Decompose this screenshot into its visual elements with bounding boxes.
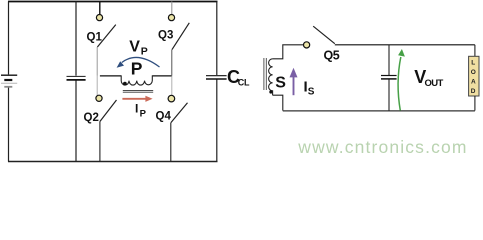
svg-text:A: A [471,79,476,86]
svg-text:CL: CL [238,78,250,88]
svg-text:Q4: Q4 [156,111,172,123]
svg-text:L: L [471,60,475,67]
svg-text:Q3: Q3 [158,29,173,41]
svg-text:OUT: OUT [425,78,444,89]
svg-text:www.cntronics.com: www.cntronics.com [297,137,467,157]
svg-text:I: I [135,101,138,115]
svg-text:P: P [131,58,143,78]
svg-text:D: D [471,88,476,95]
svg-text:O: O [471,69,476,76]
svg-text:Q1: Q1 [87,31,103,43]
svg-text:S: S [308,87,315,98]
svg-text:P: P [140,108,147,119]
svg-text:V: V [129,38,140,55]
svg-text:Q2: Q2 [84,112,99,124]
svg-text:Q5: Q5 [324,49,340,63]
svg-text:P: P [141,46,148,58]
svg-text:S: S [275,75,286,92]
